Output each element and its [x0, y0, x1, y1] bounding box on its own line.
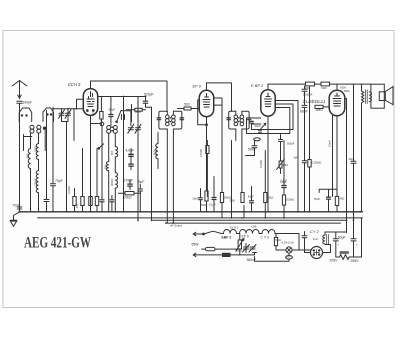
svg-text:0,1µF: 0,1µF — [209, 203, 216, 207]
svg-text:500: 500 — [135, 110, 141, 114]
svg-text:15mA: 15mA — [328, 140, 332, 147]
svg-text:C28: C28 — [251, 224, 257, 228]
svg-text:E BF 2: E BF 2 — [251, 83, 264, 88]
svg-text:40µF: 40µF — [349, 157, 355, 161]
svg-text:40Ω: 40Ω — [340, 197, 345, 201]
svg-text:0,3: 0,3 — [91, 112, 95, 116]
svg-text:520pF: 520pF — [144, 93, 154, 97]
svg-text:20kΩ: 20kΩ — [124, 196, 132, 200]
svg-text:50µF: 50µF — [314, 197, 320, 201]
svg-text:503: 503 — [184, 103, 190, 107]
svg-text:5000pF: 5000pF — [303, 93, 313, 97]
svg-text:270pF: 270pF — [124, 179, 134, 183]
svg-text:500pF: 500pF — [287, 142, 295, 146]
svg-text:6000: 6000 — [153, 149, 157, 155]
svg-text:+: + — [337, 242, 339, 246]
svg-text:ECH 3: ECH 3 — [230, 225, 239, 229]
svg-text:600: 600 — [110, 150, 114, 155]
svg-text:70nF: 70nF — [13, 204, 21, 208]
svg-text:4µF: 4µF — [293, 157, 298, 160]
svg-text:360: 360 — [286, 255, 291, 259]
svg-text:0,3MΩ: 0,3MΩ — [67, 186, 71, 194]
svg-text:Fm2: Fm2 — [313, 238, 319, 241]
svg-text:50µF: 50µF — [338, 235, 346, 239]
svg-text:50µF: 50µF — [109, 108, 116, 112]
svg-text:630: 630 — [103, 164, 107, 169]
svg-text:50µF: 50µF — [255, 124, 262, 128]
svg-text:5000: 5000 — [201, 203, 207, 207]
svg-text:205V: 205V — [330, 259, 339, 263]
svg-text:0,25MΩ: 0,25MΩ — [312, 161, 322, 165]
svg-text:50Ω: 50Ω — [276, 238, 281, 242]
svg-text:1MΩ: 1MΩ — [283, 163, 289, 167]
svg-text:75pF: 75pF — [55, 179, 63, 183]
svg-text:660: 660 — [26, 153, 30, 158]
svg-text:0,5MΩ: 0,5MΩ — [259, 160, 263, 168]
svg-text:100pF: 100pF — [23, 101, 33, 105]
svg-text:0,5MΩ: 0,5MΩ — [199, 149, 203, 157]
svg-text:68nF: 68nF — [300, 110, 308, 114]
svg-text:680s: 680s — [344, 89, 350, 93]
svg-text:AEG 421-GW: AEG 421-GW — [24, 235, 92, 252]
svg-text:CL6/EDL11: CL6/EDL11 — [303, 99, 326, 104]
svg-text:3MΩ: 3MΩ — [316, 108, 324, 112]
svg-text:50µF: 50µF — [248, 195, 254, 199]
svg-text:CY 2: CY 2 — [310, 229, 320, 234]
svg-text:2MΩ: 2MΩ — [229, 199, 235, 203]
svg-text:5µF: 5µF — [139, 180, 145, 184]
svg-text:50µF: 50µF — [193, 197, 199, 201]
svg-text:100: 100 — [75, 203, 79, 208]
svg-text:EF 9: EF 9 — [193, 84, 202, 89]
svg-text:30000: 30000 — [110, 178, 114, 186]
svg-text:250: 250 — [305, 86, 310, 90]
svg-text:50nF: 50nF — [248, 148, 256, 152]
svg-text:360nF: 360nF — [247, 258, 257, 262]
svg-text:4,8µF: 4,8µF — [126, 149, 135, 153]
svg-text:ECH 3: ECH 3 — [68, 82, 81, 87]
svg-text:0,1µF: 0,1µF — [281, 179, 288, 183]
svg-text:22000: 22000 — [34, 178, 38, 186]
svg-text:0,5MΩ: 0,5MΩ — [286, 198, 294, 202]
svg-text:255V: 255V — [351, 259, 360, 263]
svg-text:6,5V-0,1A: 6,5V-0,1A — [282, 241, 294, 245]
svg-text:63W: 63W — [321, 86, 327, 90]
svg-text:EBF 2: EBF 2 — [222, 235, 232, 239]
svg-text:nF-Stufen: nF-Stufen — [170, 224, 183, 228]
svg-text:200Ω: 200Ω — [235, 249, 242, 253]
svg-text:65W: 65W — [192, 243, 200, 247]
svg-text:EF 9: EF 9 — [242, 234, 249, 238]
svg-text:C Y 2: C Y 2 — [261, 235, 269, 239]
svg-text:25kΩ: 25kΩ — [267, 196, 273, 200]
svg-text:1993: 1993 — [34, 146, 38, 152]
svg-text:+: + — [356, 242, 358, 246]
